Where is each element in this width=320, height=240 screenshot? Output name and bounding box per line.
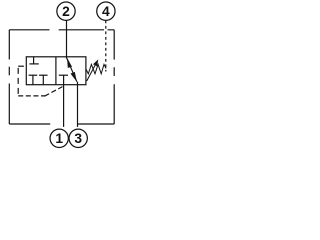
svg-text:2: 2 [62, 4, 70, 19]
spring (adjustable, right side) [86, 64, 106, 73]
valve V1 body (2-position envelope) [26, 57, 86, 85]
pilot line vertical (dashed) [17, 66, 19, 96]
wire port 3 line [77, 82, 79, 127]
svg-text:3: 3 [74, 131, 82, 146]
adjustment arrow through spring [87, 59, 99, 81]
blocked port T (left position, bottom left) [29, 75, 38, 85]
pilot line diagonal to port 1 (dashed) [45, 87, 63, 97]
wire port 1 line [63, 75, 65, 127]
cartridge boundary bottom edge [9, 123, 114, 125]
svg-text:4: 4 [102, 4, 110, 19]
node 4 (port 4 circle) [97, 2, 115, 20]
wire port 4 pilot line (dashed) [105, 20, 107, 71]
node 2 (port 2 circle) [57, 2, 75, 20]
blocked port T (left position, top) [29, 57, 38, 64]
wire port 2 line [66, 20, 68, 58]
pilot line bottom horizontal (dashed) [18, 95, 45, 97]
cartridge boundary right edge [113, 30, 115, 124]
svg-text:1: 1 [55, 131, 63, 146]
cartridge boundary left edge [8, 30, 10, 124]
node 1 (port 1 circle) [50, 129, 68, 147]
cartridge boundary top edge [9, 29, 114, 31]
blocked port T (left position, bottom right) [39, 75, 48, 85]
pilot line stub from valve left side (dashed) [18, 65, 26, 67]
blocked port T (right position, port 1) [59, 74, 68, 76]
node 3 (port 3 circle) [69, 129, 87, 147]
flow path arrow (right position, port 2 to port 3) [67, 58, 77, 82]
